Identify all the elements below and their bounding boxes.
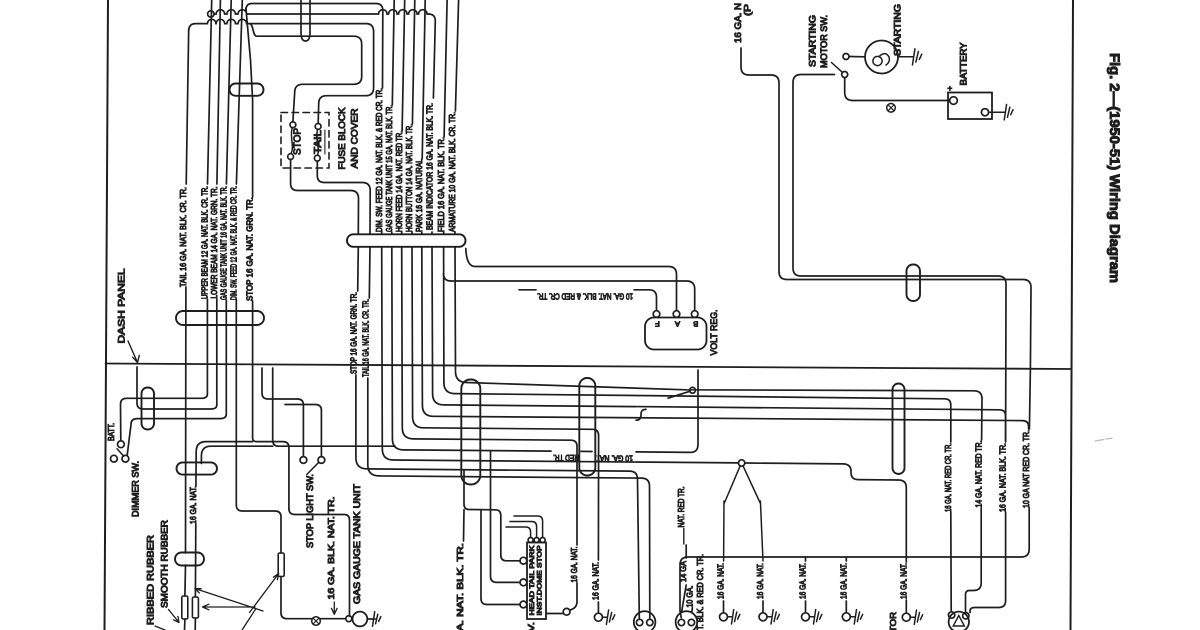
ground at starting motor	[898, 56, 908, 58]
battery plus terminal	[950, 97, 958, 105]
svg-text:16 GA. NAT.: 16 GA. NAT.	[755, 563, 765, 599]
faint smudge right margin	[1095, 438, 1112, 441]
lamp1 terminal	[720, 613, 728, 621]
svg-text:STOP LIGHT SW.: STOP LIGHT SW.	[305, 474, 315, 548]
wire upper-beam into H_a to BATT terminal	[121, 394, 208, 441]
wire upper-beam vertical	[208, 0, 212, 184]
starting motor switch contacts and lever	[843, 54, 849, 60]
wire W4 corner down stop riser to fuse block	[293, 36, 362, 121]
svg-text:A: A	[675, 320, 680, 329]
wire switch to starting motor	[849, 56, 865, 58]
headlamp pointer arrows	[195, 589, 263, 612]
svg-text:NAT. RED TR.: NAT. RED TR.	[676, 487, 686, 528]
lamp2 terminal	[759, 613, 767, 621]
starting motor symbol	[865, 41, 898, 74]
wire lower-beam vertical	[217, 0, 221, 184]
svg-text:MOTOR SW.: MOTOR SW.	[819, 15, 829, 68]
diagonal wire into junction circle	[668, 391, 690, 398]
svg-text:GAS GAUGE TANK UNIT 15 GA. NAT: GAS GAUGE TANK UNIT 15 GA. NAT. BLK. TR.	[384, 105, 394, 232]
cable clamp headlamp x176-217	[177, 462, 218, 474]
tail lamp connector 1 contacts	[636, 619, 642, 625]
crossed-circle junction	[887, 104, 896, 113]
cable clamp small x230-263	[230, 84, 264, 96]
wire 16 GA. NAT. headlamp vertical with top corner	[196, 442, 253, 486]
hairpin loop from top	[301, 0, 310, 41]
wire F2 field run to 16ga red cr tr	[443, 247, 445, 383]
wire dim-sw-feed down to stoplight sleeve and gas gauge	[236, 505, 345, 619]
svg-text:DIMMER SW.: DIMMER SW.	[131, 461, 141, 517]
wire F5 horn-button run to ground lead	[411, 247, 414, 417]
sleeve connector headlamp 2	[192, 597, 198, 618]
wire volt reg F feed stubs	[519, 290, 657, 311]
volt reg terminals F A B	[653, 311, 660, 318]
ground lead terminal	[594, 613, 602, 621]
wire stoplight left contact riser	[262, 368, 303, 456]
bus branch lamp3	[805, 557, 807, 561]
direction signal triangle	[953, 616, 964, 627]
svg-text:TAIL 16 GA. NAT. BLK. CR. TR.: TAIL 16 GA. NAT. BLK. CR. TR.	[360, 299, 370, 377]
wire W2 horizontal with bumps	[189, 19, 366, 31]
svg-text:10 GA. NAT. BLK. & RED CR. TR.: 10 GA. NAT. BLK. & RED CR. TR.	[537, 292, 633, 302]
svg-text:16 GA. NAT.: 16 GA. NAT.	[898, 563, 908, 599]
svg-text:FUSE BLOCK: FUSE BLOCK	[336, 107, 347, 170]
frame: left dash-panel border	[105, 0, 109, 630]
wire L2 from top	[392, 0, 394, 105]
svg-text:HORN BUTTON 14 GA. NAT. BLK. T: HORN BUTTON 14 GA. NAT. BLK. TR.	[404, 124, 414, 232]
wire W0 horizontal	[246, 4, 383, 89]
svg-text:16 GA. NAT.: 16 GA. NAT.	[716, 563, 726, 599]
junction circle left end of wire W1	[208, 11, 214, 17]
fuse block dashed cover box	[281, 113, 329, 169]
wire starting switch feed to lower section	[793, 75, 1006, 369]
svg-text:TAIL: TAIL	[313, 130, 324, 154]
svg-text:DASH PANEL: DASH PANEL	[117, 269, 127, 344]
bulb crossed circle gas gauge wire	[312, 617, 321, 626]
gas gauge tank unit circle	[353, 612, 368, 627]
wire W1 corner down to beam-indicator riser	[428, 14, 435, 98]
svg-text:GAS GAUGE TANK UNIT: GAS GAUGE TANK UNIT	[352, 483, 362, 604]
wire ignition feed to lower right	[741, 48, 1031, 368]
svg-text:14 GA: 14 GA	[678, 561, 688, 582]
cable clamp vertical x461-480	[461, 380, 480, 485]
wire switch lower contact to battery	[845, 78, 950, 101]
svg-text:FIELD 16 GA. NAT. BLK. TR.: FIELD 16 GA. NAT. BLK. TR.	[436, 137, 446, 232]
wire F6 horn-feed run to switch bottom	[401, 247, 404, 428]
bus branch lamp4	[845, 557, 847, 561]
wire F10 tail-lamp run to connector1	[368, 378, 650, 618]
svg-text:GAS GAUGE TANK UNIT 16 GA. NAT: GAS GAUGE TANK UNIT 16 GA. NAT. BLK. TR.	[218, 186, 228, 300]
battery box	[948, 93, 992, 120]
wire stop label chain to gauge terminal	[253, 438, 350, 616]
svg-text:16 GA. NAT.: 16 GA. NAT.	[798, 563, 808, 599]
cable clamp main harness x347-465	[347, 234, 466, 247]
svg-text:INST.DOME STOP: INST.DOME STOP	[537, 545, 544, 616]
svg-text:Fig. 2—(1950-51) Wiring Diagra: Fig. 2—(1950-51) Wiring Diagram	[1107, 53, 1122, 283]
cable clamp dimmer leads x141-154	[142, 388, 155, 430]
wire F2 tail to signal connector	[950, 512, 952, 612]
svg-text:14 GA. NAT. RED TR.: 14 GA. NAT. RED TR.	[973, 441, 983, 508]
wire riser x272.7 with horizontal	[211, 368, 395, 446]
cable clamp on feed pair x906-920	[907, 265, 921, 302]
svg-text:B: B	[693, 320, 698, 329]
svg-text:16 GA. BLK. NAT. TR.: 16 GA. BLK. NAT. TR.	[326, 497, 336, 600]
svg-text:+: +	[948, 84, 953, 93]
gas gauge ground	[367, 618, 375, 620]
svg-text:STARTING: STARTING	[808, 15, 818, 67]
wire F3 beam-ind run to 16ga blk tr	[431, 247, 434, 394]
tail lamp connector 2 contacts	[678, 619, 684, 625]
wire stoplight right contact riser	[285, 405, 321, 457]
light switch top terminals with hooks	[528, 538, 533, 543]
cable clamp headlamp lower x175-204	[175, 553, 204, 566]
svg-text:RIBBED RUBBER: RIBBED RUBBER	[145, 535, 155, 625]
svg-text:STOP 16 GA. NAT. GRN. TR.: STOP 16 GA. NAT. GRN. TR.	[349, 292, 359, 374]
fuse TAIL contacts and element	[315, 124, 321, 130]
wire field T-branch to volt reg B	[444, 274, 695, 311]
dimmer BATT terminal	[118, 441, 125, 448]
wire L3 from top	[402, 0, 405, 131]
svg-text:STOP 16 GA. NAT. GRN. TR.: STOP 16 GA. NAT. GRN. TR.	[245, 197, 255, 301]
svg-text:SMOOTH RUBBER: SMOOTH RUBBER	[159, 520, 169, 608]
svg-text:STARTING: STARTING	[893, 4, 903, 56]
cable clamp left harness x176-264	[176, 311, 264, 325]
svg-text:16 GA. NAT.: 16 GA. NAT.	[188, 486, 198, 524]
wire tail fuse bottom to harness riser	[317, 161, 370, 234]
wire riser joining F4 to F3	[636, 409, 646, 420]
wire ignition feed continues below divider to label	[1029, 368, 1030, 429]
wire 14 GA feed	[685, 545, 687, 558]
light switch left terminals	[520, 557, 527, 564]
wire W2 corner down tail riser to fuse block	[318, 24, 373, 123]
svg-text:BATT.: BATT.	[107, 423, 116, 441]
junction circle on F8	[738, 460, 744, 466]
wire tail vertical	[186, 29, 189, 184]
svg-text:16 GA. NAT. RED CR. TR.: 16 GA. NAT. RED CR. TR.	[943, 443, 953, 512]
wire switch-top feed chain from F9	[464, 470, 520, 561]
wire dim-sw-feed vertical	[236, 0, 242, 184]
wire second harness lead into clamp	[201, 446, 211, 463]
svg-text:16 GA. NAT. BLK. TR.: 16 GA. NAT. BLK. TR.	[998, 443, 1008, 512]
svg-text:BEAM INDICATOR 16 GA. NAT. BLK: BEAM INDICATOR 16 GA. NAT. BLK. TR.	[425, 103, 435, 230]
cable clamp vertical x579-595	[579, 378, 595, 476]
arrow dash panel	[128, 341, 139, 363]
svg-text:10 GA.: 10 GA.	[684, 586, 694, 608]
wire starting feed continues below divider to label	[1005, 368, 1007, 441]
wire F1 armature run to 14ga red tr	[454, 247, 457, 370]
svg-text:V.: V.	[526, 622, 536, 630]
svg-text:16 GA. NAT.: 16 GA. NAT.	[590, 562, 600, 600]
wire gas-tank into H_c to dimmer contact	[127, 414, 226, 455]
wire armature swoop from clamp end to volt reg A	[466, 249, 677, 311]
volt regulator box	[645, 318, 707, 350]
fan diagonals from junction to tail lamp leads	[724, 466, 763, 561]
wire F1 tail to signal connector	[966, 508, 982, 612]
svg-text:TAIL 16 GA. NAT. BLK. CR. TR.: TAIL 16 GA. NAT. BLK. CR. TR.	[178, 187, 188, 287]
svg-text:HORN FEED 14 GA. NAT. RED TR.: HORN FEED 14 GA. NAT. RED TR.	[394, 131, 404, 232]
svg-text:AND COVER: AND COVER	[349, 108, 360, 168]
light switch box	[527, 543, 546, 620]
tail lamp connector 1 body	[634, 611, 656, 630]
svg-text:DIM. SW. FEED 12 GA. NAT. BLK.: DIM. SW. FEED 12 GA. NAT. BLK. & RED CR.…	[228, 186, 238, 300]
svg-text:16 GA. NAT.: 16 GA. NAT.	[838, 563, 848, 599]
dimmer switch contacts and lever	[111, 455, 118, 462]
svg-text:VOLT REG.: VOLT REG.	[709, 310, 719, 356]
wire A. NAT. BLK. TR. drop	[463, 510, 466, 541]
wire W1 horizontal with bumps	[214, 10, 428, 14]
svg-text:(P: (P	[743, 4, 753, 16]
svg-text:HEAD TAIL PARK: HEAD TAIL PARK	[529, 545, 536, 616]
wire F7 gas-tank run with inverted labels	[391, 247, 394, 439]
svg-text:F: F	[655, 320, 660, 329]
svg-text:16 GA. NAT.: 16 GA. NAT.	[569, 547, 579, 583]
wire F4 park run to 10ga red cr tr	[421, 247, 424, 405]
wire F4 tail into bottom bus to connector2	[680, 508, 1029, 618]
svg-text:STOP: STOP	[293, 128, 304, 155]
frame: right body border	[1071, 0, 1074, 630]
gas gauge terminal	[346, 616, 352, 622]
sleeve connector stoplight wire	[278, 553, 284, 577]
frame: dash panel divider	[106, 364, 1072, 370]
wire F7 branch to switch middle contact	[491, 451, 521, 583]
direction signal connector body	[949, 612, 969, 630]
wire stop vertical through clamp	[246, 8, 253, 197]
cable clamp vertical x892-904	[893, 384, 905, 475]
direction signal contacts	[948, 612, 954, 618]
wire stop fuse bottom to harness riser	[291, 160, 359, 234]
sleeve connector headlamp 1	[182, 596, 188, 619]
svg-text:LOWER BEAM 14 GA. NAT. GRN. TR: LOWER BEAM 14 GA. NAT. GRN. TR.	[209, 187, 219, 299]
stoplight switch contacts and lever	[300, 457, 307, 464]
svg-text:10 GA NAT RED CR. TR.: 10 GA NAT RED CR. TR.	[1021, 430, 1031, 508]
wire branch to switch third terminal	[481, 510, 520, 605]
wire L5 from top	[422, 0, 425, 159]
wire L7 from top	[444, 0, 447, 137]
svg-text:ARMATURE 10 GA. NAT. BLK. CR.: ARMATURE 10 GA. NAT. BLK. CR. TR.	[447, 112, 457, 232]
svg-text:PARK 16 GA. NATURAL: PARK 16 GA. NATURAL	[414, 159, 424, 232]
tail lamp connector 2 body	[676, 611, 698, 630]
svg-text:16 GA. N: 16 GA. N	[733, 3, 743, 43]
wire L8 from top	[455, 0, 458, 111]
wire F8 dim-sw-feed run across to heater motor	[381, 247, 384, 449]
switch bottom terminal circle and lead	[563, 608, 570, 615]
wire F9 stop-lamp run to connector1	[356, 375, 639, 618]
svg-text:T. BLK. & RED CR. TR.: T. BLK. & RED CR. TR.	[695, 554, 705, 630]
junction circle on F1	[690, 387, 696, 393]
wire L4 from top	[412, 0, 414, 124]
svg-text:DIM. SW. FEED 12 GA. NAT. BLK.: DIM. SW. FEED 12 GA. NAT. BLK. & RED CR.…	[374, 88, 384, 232]
svg-text:TOR: TOR	[888, 612, 898, 630]
wire lower-beam into H_b riser	[137, 367, 217, 409]
wire W4 jog and horizontal	[250, 24, 354, 37]
svg-text:A. NAT. BLK. TR.: A. NAT. BLK. TR.	[455, 543, 465, 630]
svg-text:BATTERY: BATTERY	[959, 42, 969, 85]
wire F3 tail toward signal connector	[970, 512, 1006, 613]
fuse STOP contacts and element	[290, 122, 296, 128]
heater motor terminal and ground	[902, 613, 910, 621]
wire gas-gauge-tank vertical	[226, 0, 231, 184]
battery ground terminal	[981, 109, 988, 116]
